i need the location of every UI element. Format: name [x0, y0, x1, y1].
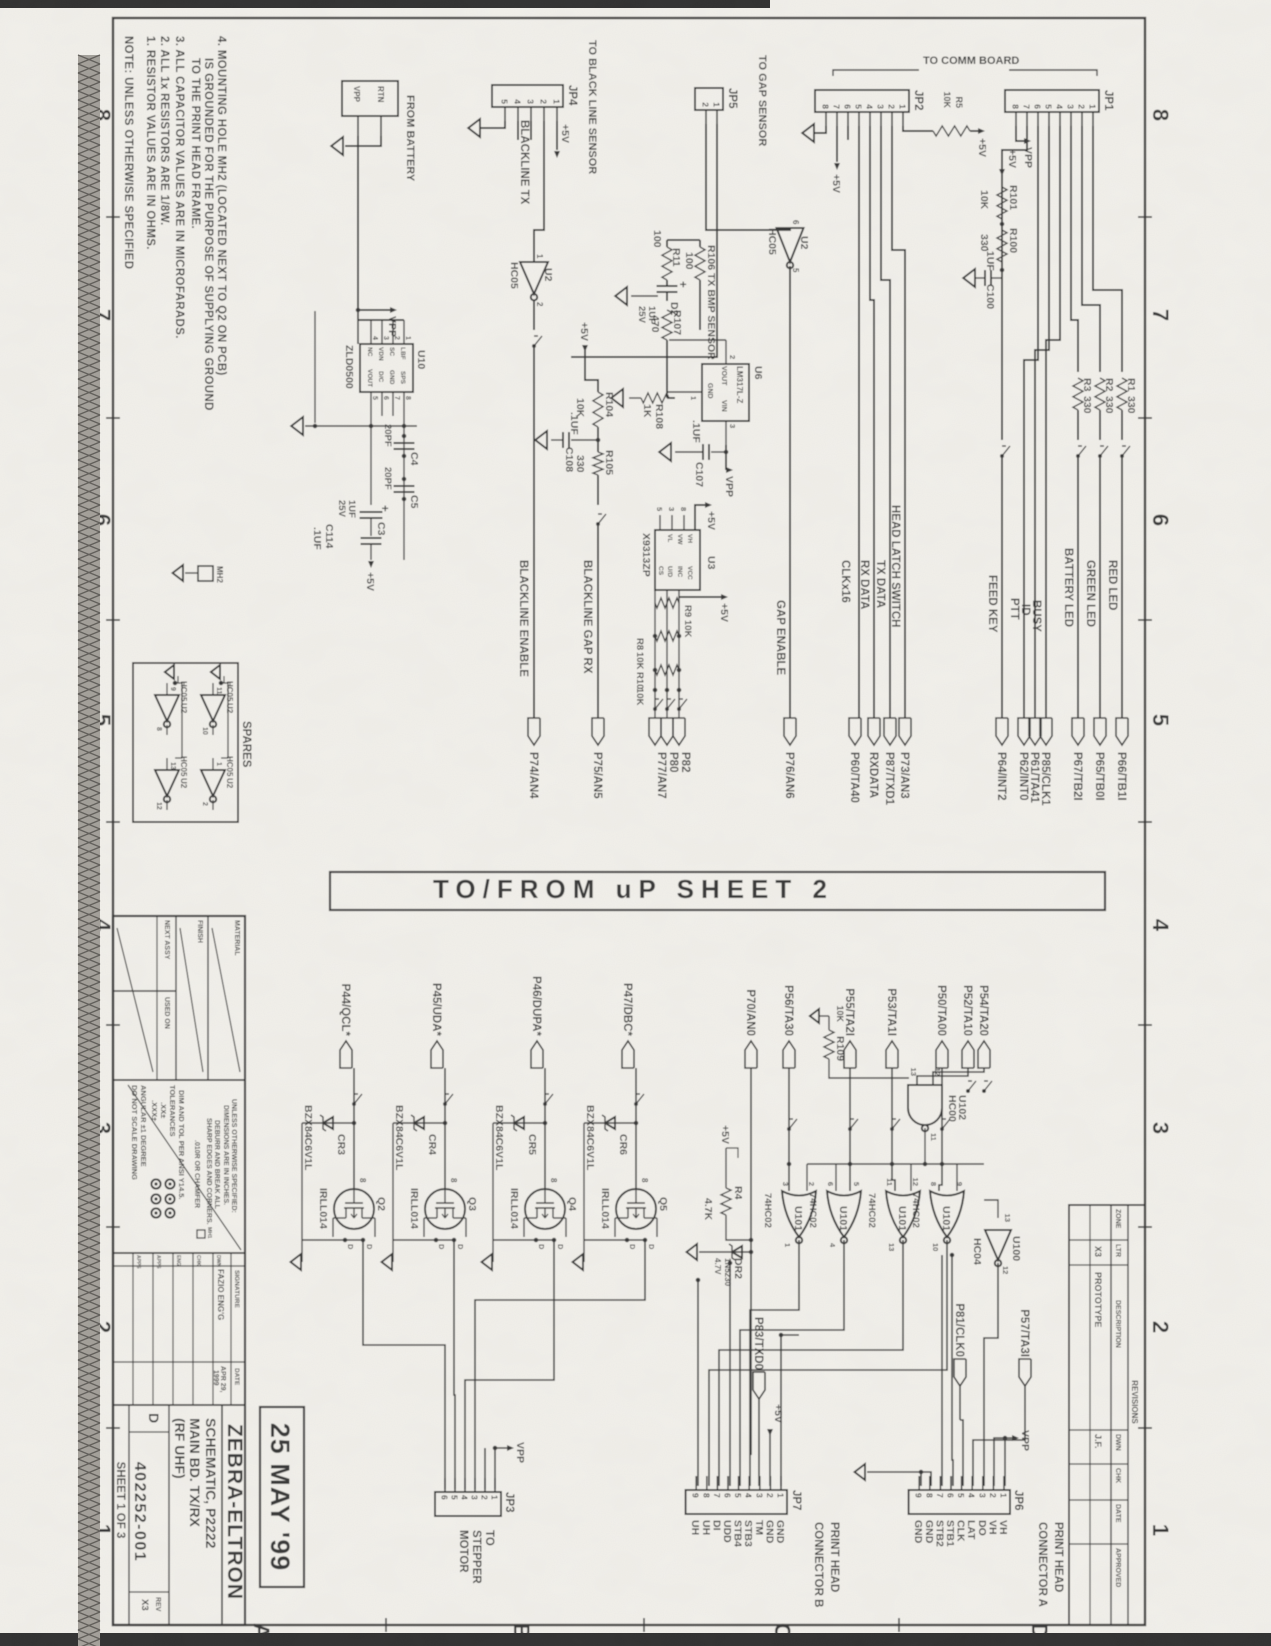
wire U100 output to JP6 pin3 [984, 1263, 998, 1486]
TO COMM BOARD bracket [1009, 70, 1097, 76]
wire Q2 drain to JP3 pin6 [363, 1240, 445, 1489]
wire gate Q4 [544, 1068, 546, 1189]
wire P53/TA1I to gate U101C [892, 1068, 895, 1191]
port P87/TXD1 [884, 718, 896, 745]
wire JP3 pins 1-2 VPP [495, 1448, 507, 1489]
wire to R105 [597, 427, 599, 452]
wire JP5 pin1 to sensor node [571, 124, 717, 357]
ground spares 2 [165, 665, 174, 679]
port P75/AN5 [592, 718, 604, 745]
resistor R104 [593, 392, 603, 427]
ground DR2 [687, 1244, 697, 1260]
wire JP4 pin3 stub [530, 121, 532, 140]
wire JP2 pin6 stub [847, 126, 849, 140]
wire mid rail to flags [666, 625, 668, 718]
wire gate Q3 [444, 1068, 446, 1189]
wire JP2 pin7 +5V [836, 126, 838, 162]
resistor R4 [721, 1188, 731, 1215]
wire JP2 pin4 RX DATA [870, 126, 874, 718]
port RXDATA [868, 718, 880, 745]
spares box [133, 663, 238, 822]
stubs U3 left pins [683, 515, 685, 530]
zener diode CR6 BZX84C6V1L [584, 1122, 636, 1124]
wire JP1 pin5 ID [1035, 126, 1049, 718]
ground Q3 [382, 1254, 392, 1270]
ground spares 1 [211, 665, 220, 679]
jumper on GREEN LED line [1099, 410, 1101, 440]
ground Q4 [482, 1254, 492, 1270]
port P67/TB2I [1072, 718, 1084, 745]
ground Q5 [573, 1254, 583, 1270]
port P66/TB1I [1116, 718, 1128, 745]
revisions column header row [1110, 1205, 1112, 1625]
digital pot U3 X9313ZP [655, 530, 700, 590]
wire JP1 pin1 RED LED [1093, 126, 1122, 372]
port P60/TA40 [849, 718, 861, 745]
spares input tie [221, 683, 228, 758]
nor gate U101 D 74HC02 [930, 1191, 964, 1237]
ground MH2 [173, 565, 183, 581]
port P52/TA10 [962, 1041, 974, 1068]
power +5V at R9 [679, 596, 721, 598]
wire U3 +5V [695, 505, 705, 530]
wire JP5 pin2 to inverter U2C input [706, 124, 790, 230]
capacitor C100 [1000, 268, 1005, 273]
wire Q5 drain to JP3 pin3 [475, 1240, 645, 1489]
wire to JP6 pin6 STB1 [952, 1255, 953, 1486]
wire JP2 pin5 CLKx16 [858, 126, 860, 718]
wire P70/AN0 long run [750, 1068, 752, 1455]
wire JP6 pins 1-2 VPP [1004, 1438, 1006, 1486]
wire JP2 pin3 TX DATA [881, 126, 890, 718]
port P70/AN0 [745, 1041, 757, 1068]
wire JP1 pin2 GREEN LED [1082, 126, 1100, 372]
zone tick marks top/bottom borders [1138, 216, 1152, 218]
wire P55/TA2I to gate U101B [849, 1068, 851, 1191]
resistor R105 [593, 452, 603, 475]
wire P54/TA20 to U102 [933, 1068, 984, 1085]
jumper on RED LED line [1121, 410, 1123, 440]
wire gate A output to JP7 pin4 [750, 1240, 799, 1486]
port P62/INT0 [1018, 718, 1030, 745]
resistor R100 [1000, 222, 1005, 227]
port P54/TA20 [978, 1041, 990, 1068]
wire U100 input [984, 1200, 998, 1218]
revisions column dividers [1069, 1239, 1128, 1241]
wire BLACKLINE ENABLE [533, 300, 535, 330]
ground JP6 [855, 1464, 865, 1480]
source stubs Q3 [393, 1239, 454, 1241]
wire JP4 pin4 stub [517, 121, 519, 140]
wire U6 VIN to VPP and C107 [725, 445, 727, 470]
title block outline [113, 916, 245, 1625]
zener diode CR4 BZX84C6V1L [393, 1122, 445, 1124]
inverter U2A blackline [520, 262, 548, 294]
port P82 [673, 718, 685, 745]
revisions row lines [1089, 1205, 1091, 1625]
ground for C100 [963, 269, 975, 287]
zener diode CR5 BZX84C6V1L [493, 1122, 545, 1124]
spare inverter U2 13/12 [155, 770, 179, 796]
wire gate Q2 [353, 1068, 355, 1189]
port P57/TA3I [1019, 1359, 1031, 1386]
wire P52/TA10 to U102 [917, 1068, 968, 1085]
capacitor C3 electrolytic [360, 511, 383, 513]
next assy / used on box [113, 990, 176, 992]
cell bottom rail Q2 [301, 1123, 303, 1262]
revisions table outline [1069, 1205, 1145, 1625]
port P81/CLK0 [954, 1359, 966, 1386]
port P85/CLK1 [1040, 718, 1052, 745]
wire U102 output [924, 1128, 926, 1164]
wire battery VPP rail [357, 136, 359, 310]
port P73/AN3 [899, 718, 911, 745]
spare inverter U2 11/10 [201, 695, 225, 721]
wire JP7 pin3 TM [759, 1309, 760, 1311]
wire JP1 pin6 PTT [1024, 126, 1038, 718]
ground under C107 [659, 443, 671, 461]
input common rail for gates [807, 1163, 984, 1165]
wire blackline gap rx [597, 475, 599, 505]
source stubs Q4 [493, 1239, 554, 1241]
wire U10 output rail B [370, 416, 372, 505]
finish box [175, 916, 177, 1080]
wire gate Q5 [635, 1068, 637, 1189]
source stubs Q5 [584, 1239, 645, 1241]
wire U10 output rail A [403, 416, 405, 560]
port P65/TB0I [1094, 718, 1106, 745]
capacitor C107 [708, 444, 710, 460]
ground Q2 [291, 1254, 301, 1270]
resistor R108 to ground [669, 339, 726, 341]
resistor R101 [997, 187, 1007, 219]
port P55/TA2I [844, 1041, 856, 1068]
wire U10 VPP input [357, 310, 359, 320]
resistor R109 with ground [810, 1009, 819, 1023]
nor gate U101 B 74HC02 [827, 1191, 861, 1237]
nor gate U101 C 74HC02 [886, 1191, 920, 1237]
wire P50/TA00 to gate U101D [939, 1068, 942, 1191]
wire JP4 pin2 to inverter U2A [534, 121, 544, 262]
capacitor C5 [394, 485, 415, 487]
nor gate U101 A 74HC02 [782, 1191, 816, 1237]
resistor R106 [699, 240, 701, 247]
transistor Q5 IRLL014 [616, 1189, 656, 1229]
regulator U6 LM317L [702, 364, 749, 421]
regulator U10 ZLD0500 [360, 344, 413, 392]
tolerance panel diagonal [128, 1085, 241, 1250]
wire JP2 pin2 HEAD LATCH SWITCH [892, 126, 905, 718]
rails from U3 to trim resistors [678, 590, 680, 718]
port P83/TXD0 [753, 1372, 765, 1399]
resistor R2 [1095, 378, 1105, 410]
transistor Q3 IRLL014 [425, 1189, 465, 1229]
port P74/AN4 [528, 718, 540, 745]
wire joining R11/R106 [667, 239, 700, 241]
cell bottom rail Q4 [492, 1123, 494, 1262]
scan artifact: top black strip [0, 0, 770, 8]
transistor Q4 IRLL014 [525, 1189, 565, 1229]
wire Q4 drain to JP3 pin4 [465, 1240, 554, 1489]
wire gate B output to JP7 pin5 [740, 1240, 844, 1486]
nand gate U102 HC00 [908, 1085, 942, 1125]
port P53/TA1I [886, 1041, 898, 1068]
port P56/TA30 [783, 1041, 795, 1068]
wire JP1 pin3 BATTERY LED [1071, 126, 1078, 372]
resistor R9 [655, 598, 679, 608]
port P45/UDA* [431, 1041, 443, 1068]
zener diode DR2 1N5230 [749, 1250, 754, 1255]
scan artifact: bottom black strip [0, 1633, 1271, 1646]
revisions header band [1127, 1205, 1129, 1625]
title block vertical dividers [113, 1079, 245, 1081]
wire Q3 drain to JP3 pin5 [454, 1240, 455, 1489]
port P76/AN6 [784, 718, 796, 745]
wire JP7 pin9 [697, 1280, 699, 1486]
TO/FROM uP SHEET 2 banner box [330, 872, 1105, 910]
resistor R1 [1117, 378, 1127, 410]
cell bottom rail Q3 [392, 1123, 394, 1262]
resistor R3 [1073, 378, 1083, 410]
port P77/AN7 [649, 718, 661, 745]
mounting hole MH2 [198, 566, 213, 581]
resistor R8 [655, 631, 679, 641]
capacitor C108 [571, 439, 598, 441]
ground at JP2 [802, 124, 814, 142]
material box [207, 916, 209, 1080]
ground under C108 [535, 431, 547, 449]
wire JP7 pin6 [729, 1263, 731, 1486]
capacitor C4 [394, 442, 415, 444]
MH1 mounting symbol [197, 1230, 205, 1238]
sheet border frame [113, 18, 1145, 1625]
inverter U100 HC04 [985, 1230, 1011, 1260]
wire JP6 pins 8-9 ground [867, 1472, 931, 1486]
capacitor D2 1UF 25V [666, 280, 668, 286]
power +5V at rail B [368, 561, 374, 568]
wire JP2 pin8 ground [815, 126, 826, 133]
zener diode CR3 BZX84C6V1L [302, 1122, 354, 1124]
wire gate C output to JP7 pin7 [719, 1240, 903, 1486]
wire JP7 pin1 [780, 1335, 782, 1486]
wire GAP ENABLE [789, 266, 791, 718]
signature panel grid [230, 1253, 232, 1405]
wire JP1 pin7 FEED KEY [1002, 126, 1027, 440]
resistor R107 [662, 310, 672, 340]
port P50/TA00 [936, 1041, 948, 1068]
wire JP4 pin5 ground [481, 121, 505, 128]
port P61/TA41 [1029, 718, 1041, 745]
port P47/DBC* [622, 1041, 634, 1068]
capacitor C114 [361, 537, 382, 539]
ground at JP4 [468, 119, 480, 137]
wire JP4 pin1 +5V [556, 121, 558, 150]
wire gate D output to JP7 pin8 [709, 1240, 947, 1486]
cell bottom rail Q5 [583, 1123, 585, 1262]
port P64/INT2 [996, 718, 1008, 745]
size cell D [168, 1405, 170, 1625]
wire P70 line down to bus [750, 1454, 751, 1456]
port P80 [661, 718, 673, 745]
port P44/QCL* [340, 1041, 352, 1068]
resistor R11 [666, 240, 668, 247]
wire JP1 pin4 BUSY [1046, 126, 1060, 718]
resistor R5 with +5V [903, 126, 933, 131]
ground under R108 [629, 397, 641, 399]
battery connector [342, 81, 398, 116]
zone tick marks right border [898, 1618, 900, 1632]
ground after D2 [631, 295, 658, 297]
wire battery RTN to ground [345, 136, 381, 146]
spare inverter U2 9/8 [155, 695, 179, 721]
wire JP1 pin8 VPP [1016, 126, 1024, 141]
VPP arrow stub [358, 309, 391, 311]
ground battery RTN [331, 137, 343, 155]
ground U10 area [291, 417, 303, 435]
resistor R10 [655, 665, 679, 675]
ground rail for U10 caps [314, 311, 316, 423]
transistor Q2 IRLL014 [334, 1189, 374, 1229]
wire to JP6 pin7 STB2 [941, 1255, 943, 1486]
wire P56/TA30 to gate U101A [788, 1068, 790, 1191]
spare inverter U2 1/2 [201, 770, 225, 796]
source stubs Q2 [302, 1239, 363, 1241]
jumper on BATTERY LED line [1077, 410, 1079, 440]
inspection circles [165, 1179, 174, 1188]
date stamp box 25 MAY 99 [260, 1407, 304, 1587]
port P46/DUPA* [531, 1041, 543, 1068]
scan artifact: punched edge shading band [78, 55, 100, 1646]
inverter U2 gap enable [777, 228, 804, 262]
